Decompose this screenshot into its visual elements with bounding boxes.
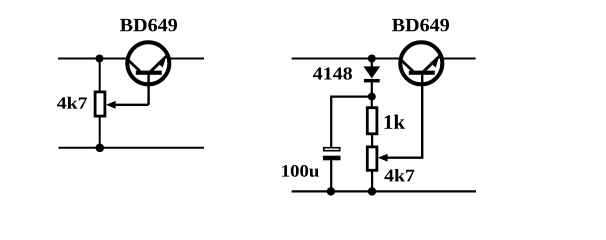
label 4k7 (left pot value) [57, 97, 87, 109]
label BD649 (right transistor value) [392, 19, 449, 32]
label 4k7 (right pot value) [384, 169, 414, 181]
transistor Q2 internals: base bar, collector, emitter arrow [400, 55, 440, 86]
transistor Q1 internals: base bar, collector, emitter arrow [127, 55, 167, 86]
resistor 1k body [367, 108, 377, 134]
capacitor C1 100u plates [323, 148, 341, 161]
junction dot capacitor / bottom rail [327, 187, 335, 195]
wire capacitor top lead [330, 96, 332, 148]
junction dot bottom rail / pot bottom (left) [96, 144, 105, 153]
transistor Q2 BD649 circle (right) [400, 42, 442, 84]
wire diode cathode to 1k resistor [371, 82, 373, 107]
wire capacitor bottom lead [330, 160, 332, 191]
wire diode anode [371, 59, 373, 68]
wire node to capacitor (horizontal link) [331, 95, 372, 97]
transistor Q1 BD649 circle (left) [127, 42, 169, 84]
pot wiper arrow (right) [378, 154, 422, 162]
wire bottom rail (left circuit) [59, 147, 205, 149]
junction dot 4k7 / bottom rail (right) [368, 187, 376, 195]
wire bottom rail (right circuit) [292, 190, 476, 192]
wire wiper to transistor base (right) [421, 74, 423, 159]
label 1k (resistor value) [385, 115, 405, 129]
wire wiper to transistor base (left) [147, 74, 149, 105]
wire through 1k and 4k7 chain [371, 107, 373, 191]
wire top rail (right circuit) [292, 58, 476, 60]
potentiometer 4k7 body (left) [95, 92, 105, 116]
junction dot top rail / diode anode [368, 55, 376, 63]
label 100u (capacitor value) [282, 165, 319, 177]
junction dot diode/cap/1k node [368, 93, 376, 101]
wire vertical through 4k7 pot (left) [99, 59, 101, 148]
wire top rail (left circuit) [58, 58, 204, 60]
label 4148 (diode value) [313, 67, 352, 79]
diode D1 4148 (triangle + cathode bar) [363, 66, 380, 82]
junction dot top rail / pot top (left) [96, 55, 104, 63]
potentiometer 4k7 body (right) [367, 147, 377, 170]
pot wiper arrow (left) [106, 101, 149, 109]
label BD649 (left transistor value) [120, 19, 177, 32]
